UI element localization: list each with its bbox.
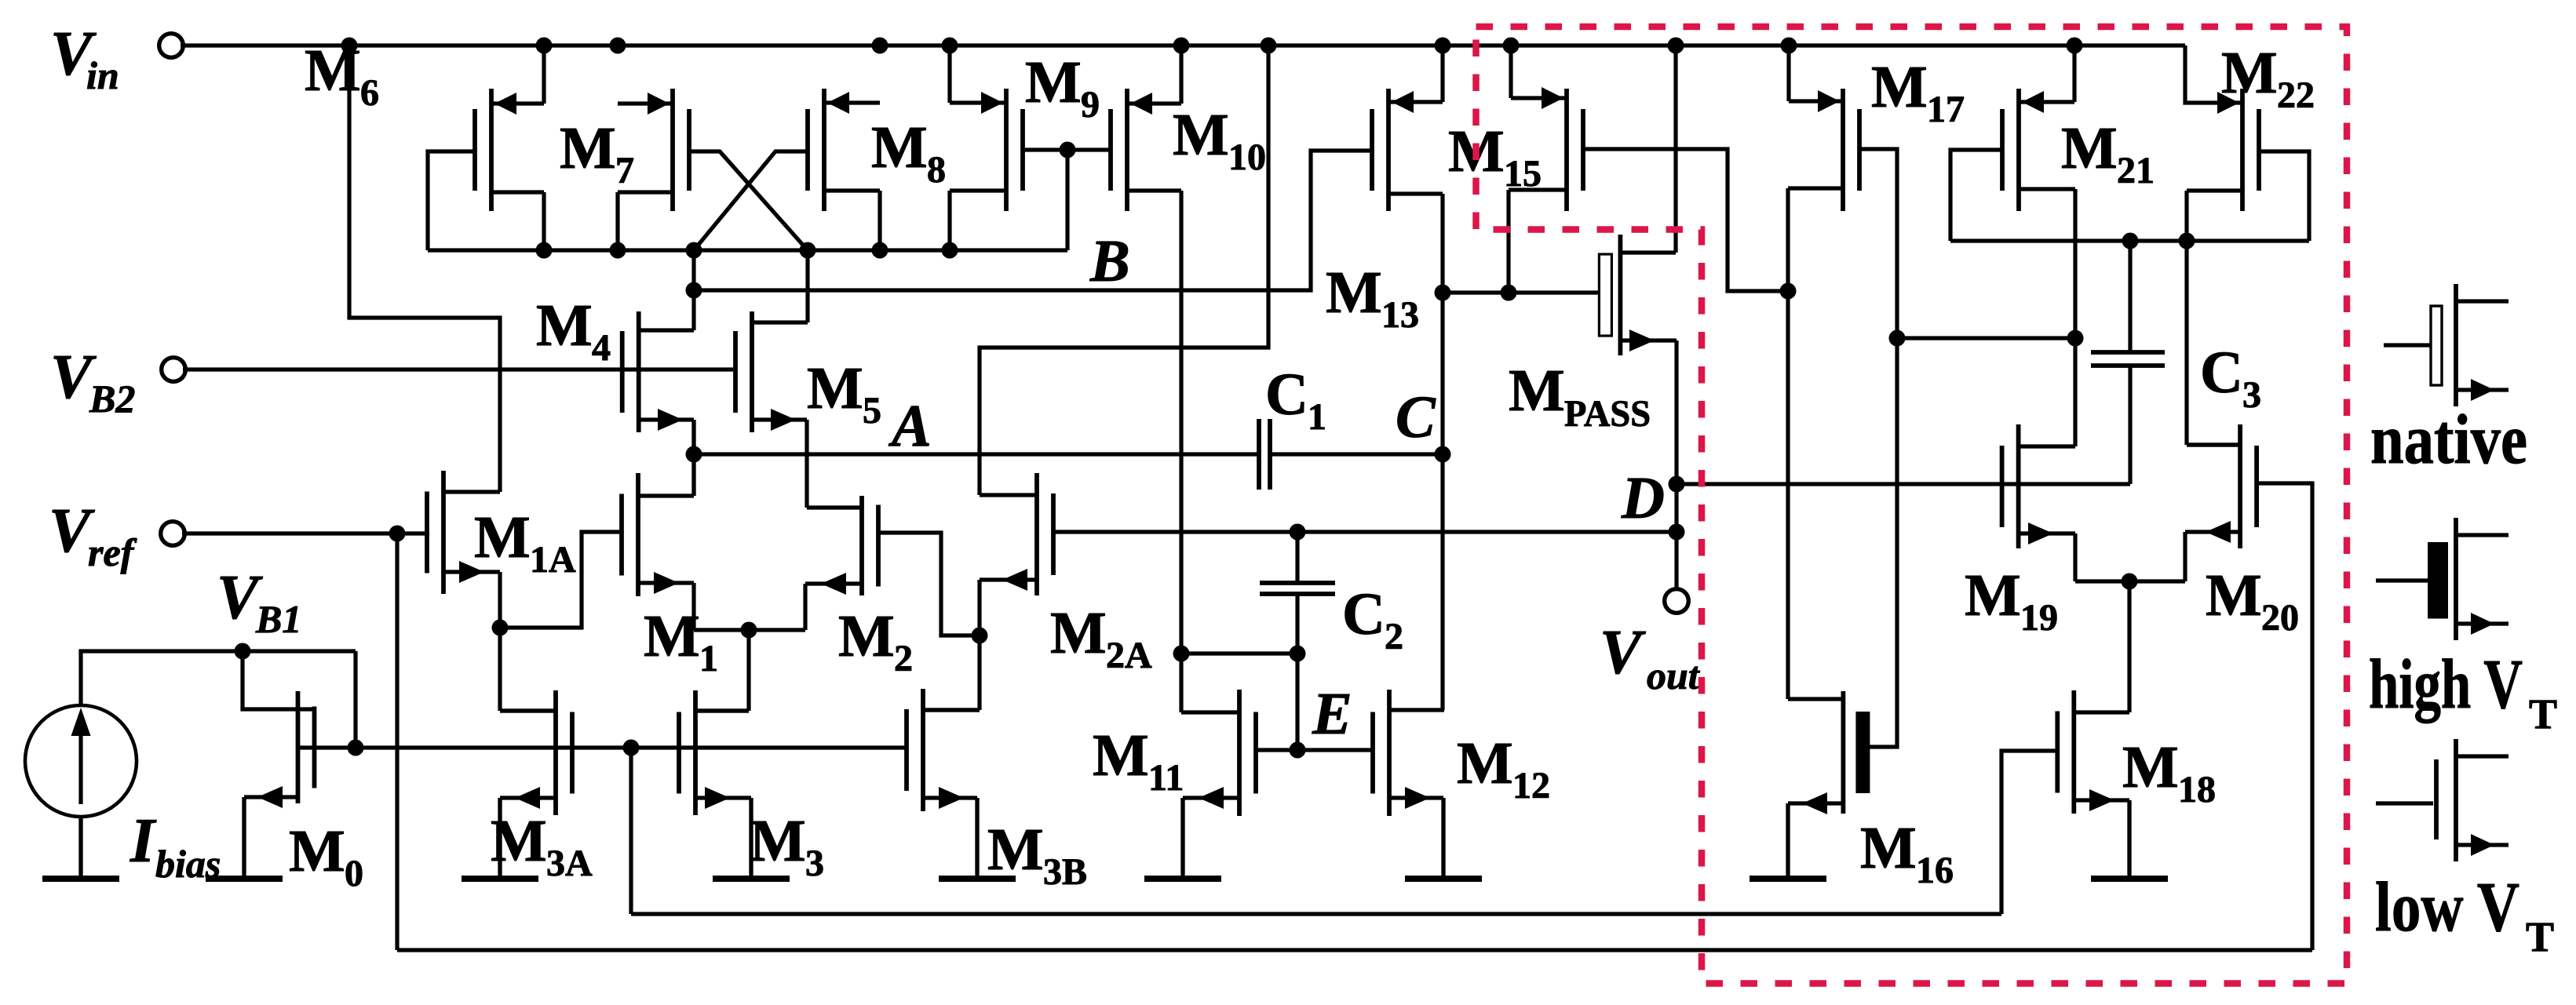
label MPASS: [1509, 358, 1651, 435]
transistor M11: [1183, 690, 1256, 873]
transistor M3: [679, 690, 751, 873]
svg-text:2: 2: [1385, 616, 1403, 657]
wire node D rail: [1677, 482, 2130, 486]
wire M15 gate: [1582, 149, 1788, 291]
svg-text:M: M: [289, 818, 345, 884]
junction dot VB1: [235, 643, 251, 660]
transistor M12: [1373, 690, 1444, 873]
svg-text:ref: ref: [88, 530, 137, 574]
junction dot node A: [686, 446, 702, 463]
node label D: [1621, 465, 1665, 531]
label C1: [1265, 362, 1326, 438]
svg-text:8: 8: [927, 149, 946, 191]
wire node C vertical: [1440, 194, 1444, 710]
svg-text:M: M: [2221, 40, 2278, 106]
junction dot C2 top: [1290, 524, 1306, 541]
junction dot M2A source node: [972, 628, 988, 644]
label Vout: [1600, 618, 1701, 697]
wire MPASS drain to Vin: [1673, 46, 1677, 253]
svg-text:M: M: [2061, 115, 2118, 181]
legend high-VT symbol: [2376, 518, 2508, 640]
svg-text:9: 9: [1081, 84, 1100, 126]
label M20: [2206, 563, 2299, 639]
svg-text:M: M: [491, 808, 547, 874]
node label B: [1089, 228, 1130, 294]
svg-text:M: M: [838, 603, 895, 669]
ground Ibias: [42, 817, 119, 879]
legend label low VT: [2375, 868, 2554, 960]
label Ibias: [130, 807, 221, 886]
svg-text:C: C: [1396, 384, 1436, 450]
label Vref: [49, 497, 137, 574]
wire M7 gate diagonal: [688, 151, 808, 250]
label M4: [536, 293, 611, 369]
transistor M8: [808, 89, 880, 250]
red dashed box: [1476, 27, 2348, 984]
wire M10 drain to M11 drain: [1181, 191, 1239, 712]
junction dot node C: [1435, 446, 1451, 463]
svg-text:M: M: [1093, 723, 1149, 788]
transistor M20: [2185, 424, 2257, 581]
wire M9 diode loop: [1065, 150, 1069, 250]
label M3A: [491, 808, 593, 884]
wire M4 source to M1 drain: [691, 420, 695, 496]
junction dot M15 gate to M17 drain: [1780, 283, 1797, 300]
transistor M1: [622, 473, 694, 630]
svg-text:3: 3: [2242, 374, 2261, 416]
svg-text:M: M: [1173, 102, 1229, 168]
terminal VB2: [162, 358, 186, 382]
label M0: [289, 818, 363, 894]
svg-text:C: C: [2200, 340, 2243, 406]
svg-text:native: native: [2370, 401, 2527, 479]
junction dot Vref: [389, 526, 406, 542]
ground M18: [2091, 800, 2168, 879]
transistor M13: [1372, 46, 1443, 211]
capacitor C2: [1260, 532, 1335, 654]
transistor M18: [2057, 581, 2129, 873]
junction dot node D: [1669, 476, 1685, 493]
transistor M1A: [427, 471, 556, 711]
svg-text:3B: 3B: [1043, 851, 1087, 893]
junction dot tail: [741, 622, 757, 639]
ground M3B: [939, 798, 1016, 879]
wire node E rail: [1256, 748, 1373, 752]
legend label high VT: [2369, 646, 2557, 737]
wire M21 gate loop: [1950, 150, 2002, 241]
label M19: [1965, 563, 2058, 639]
transistor M2A: [980, 473, 1053, 595]
svg-text:B: B: [1089, 228, 1130, 294]
label M1: [644, 603, 718, 679]
svg-text:7: 7: [615, 150, 634, 191]
wire tail to M3 drain: [695, 630, 749, 711]
junction dot MPASS gate node: [1435, 285, 1451, 301]
wire VB1 to bus: [353, 651, 357, 748]
svg-text:M: M: [305, 38, 361, 104]
wire VB1 bottom rail: [631, 748, 2001, 914]
junction dot M21 drain vertical: [2067, 330, 2084, 347]
svg-text:out: out: [1647, 654, 1701, 697]
wire M9-M10 gate link: [1021, 147, 1111, 151]
transistor M5: [735, 250, 808, 508]
label VB2: [50, 343, 135, 421]
node label C: [1396, 384, 1436, 450]
label M7: [560, 115, 634, 191]
junction dot M1 gate tap: [492, 620, 509, 636]
ground M11: [1144, 798, 1221, 879]
terminal Vout: [1665, 589, 1689, 614]
svg-text:E: E: [1312, 681, 1352, 747]
svg-text:A: A: [888, 393, 932, 459]
transistor M9: [950, 46, 1023, 211]
svg-text:13: 13: [1381, 294, 1419, 336]
junction dots drain row: [2122, 233, 2195, 249]
junction dots on Vin rail: [341, 38, 2083, 54]
svg-text:M: M: [644, 603, 700, 669]
capacitor C3: [2091, 241, 2165, 484]
transistor M3B: [907, 689, 980, 873]
junction dot C2 bottom: [1290, 646, 1306, 662]
wire node B vertical: [691, 250, 695, 330]
svg-text:19: 19: [2020, 597, 2058, 639]
wire C2 to node E: [1295, 654, 1299, 750]
junction dot node B: [686, 282, 702, 299]
transistor M19: [2002, 424, 2075, 581]
wire M18 gate to VB1 rail: [2001, 751, 2059, 914]
svg-text:11: 11: [1148, 757, 1184, 799]
svg-text:B1: B1: [255, 597, 301, 641]
label M10: [1173, 102, 1266, 178]
transistor M17: [1788, 46, 1859, 211]
svg-text:C: C: [1342, 581, 1385, 647]
terminal Vref: [161, 522, 185, 546]
svg-text:20: 20: [2261, 597, 2299, 639]
wire VB2 to M4 M5 gates: [183, 367, 733, 371]
transistor M10: [1111, 46, 1181, 211]
junction dot node E: [1290, 742, 1306, 759]
transistor M2: [805, 496, 878, 630]
transistor M15: [1509, 46, 1583, 293]
svg-text:21: 21: [2117, 150, 2155, 191]
svg-text:M: M: [1965, 563, 2021, 628]
wire node-B bus: [428, 248, 1067, 252]
node label E: [1312, 681, 1352, 747]
ground M3: [713, 798, 790, 879]
label VB1: [217, 563, 301, 641]
legend native symbol: [2384, 284, 2508, 406]
wire MPASS source to Vout: [1674, 340, 1678, 591]
node label A: [888, 393, 932, 459]
svg-text:M: M: [474, 504, 531, 570]
transistor M6: [475, 46, 544, 250]
label M5: [807, 355, 881, 431]
label M12: [1457, 730, 1550, 807]
svg-text:18: 18: [2178, 769, 2216, 810]
svg-text:M: M: [1457, 730, 1513, 796]
wire M17 M16 gates: [1860, 149, 1897, 747]
svg-text:1: 1: [1308, 396, 1326, 438]
wire M9 drain to bus: [947, 191, 951, 250]
wire Vin to M1A drain: [349, 46, 500, 492]
wire M2A drain to Vin: [980, 46, 1268, 495]
svg-text:4: 4: [592, 327, 611, 369]
junction dots on B bus: [536, 242, 958, 259]
label M18: [2122, 734, 2216, 810]
junction dot M10-C2 branch: [1173, 646, 1190, 662]
label M9: [1025, 49, 1100, 126]
label M2: [838, 603, 913, 679]
svg-text:15: 15: [1504, 153, 1542, 195]
svg-text:B2: B2: [89, 377, 135, 421]
label C3: [2200, 340, 2261, 416]
wire M22 gate loop: [2257, 151, 2309, 241]
legend label native: [2370, 401, 2527, 479]
svg-text:M: M: [2206, 563, 2262, 628]
svg-text:V: V: [1600, 618, 1646, 687]
wire M6 gate loop: [428, 151, 476, 250]
wire Vref to bottom rail: [395, 533, 399, 950]
label M6: [305, 38, 379, 114]
svg-text:high V: high V: [2369, 646, 2523, 723]
wire M21 drain to M19: [2019, 189, 2075, 446]
label C2: [1342, 581, 1403, 657]
svg-text:M: M: [1871, 54, 1928, 120]
transistor M7: [618, 89, 689, 250]
wire gate row to M21 drain: [1897, 336, 2075, 340]
wire Vref bottom rail: [397, 948, 2312, 952]
svg-text:low V: low V: [2375, 868, 2519, 946]
svg-text:D: D: [1621, 465, 1665, 531]
transistor M3A: [500, 690, 572, 873]
wire node A rail: [694, 452, 1259, 456]
label M11: [1093, 723, 1184, 799]
wire diff tail: [694, 628, 805, 632]
ground M0: [206, 797, 283, 879]
label M13: [1326, 260, 1419, 336]
wire Vin top rail: [181, 43, 2185, 47]
svg-text:M: M: [750, 808, 806, 874]
ground M16: [1750, 803, 1826, 879]
transistor M4: [622, 311, 694, 496]
junction dot M9 gate: [1060, 142, 1076, 158]
terminal Vin: [159, 34, 184, 58]
wire M21 drain row: [1950, 239, 2309, 242]
junction dots gate bus: [348, 740, 640, 756]
wire VB1 to M0 gate: [243, 651, 314, 709]
wire M17 drain to M16: [1788, 188, 1843, 699]
svg-text:3A: 3A: [546, 843, 593, 884]
svg-text:1: 1: [699, 638, 718, 679]
wire M1 gate: [500, 532, 623, 628]
wire node B rail: [694, 151, 1372, 290]
svg-text:1A: 1A: [530, 539, 576, 581]
junction dot gate row: [1889, 330, 1906, 347]
svg-text:T: T: [2529, 690, 2557, 737]
wire M22 drain to M20 drain: [2187, 191, 2240, 445]
svg-text:M: M: [1860, 815, 1917, 881]
junction dot M15 drain node: [1501, 285, 1517, 301]
wire C2 bottom link: [1181, 651, 1297, 655]
transistor M21: [2002, 46, 2075, 211]
svg-text:M: M: [560, 115, 616, 181]
svg-text:M: M: [1509, 358, 1565, 424]
label M1A: [474, 504, 576, 581]
label M3: [750, 808, 824, 884]
svg-text:6: 6: [360, 72, 379, 114]
svg-text:22: 22: [2277, 75, 2315, 116]
svg-text:0: 0: [345, 853, 363, 894]
label M3B: [987, 817, 1087, 893]
current source Ibias: [25, 651, 356, 873]
svg-text:in: in: [86, 53, 119, 97]
svg-text:M: M: [1025, 49, 1082, 115]
wire M2 gate: [878, 533, 980, 635]
capacitor C1: [1259, 419, 1443, 490]
svg-text:M: M: [871, 115, 928, 180]
wire M8 gate diagonal: [694, 151, 807, 250]
wire Vref line: [182, 531, 426, 535]
ground M12: [1405, 798, 1482, 879]
label Vin: [50, 20, 119, 97]
svg-text:2: 2: [894, 638, 913, 679]
svg-text:M: M: [536, 293, 593, 359]
transistor MPASS: [1599, 235, 1677, 355]
svg-text:PASS: PASS: [1564, 393, 1651, 435]
svg-text:C: C: [1265, 362, 1308, 428]
wire M20 gate to Vref rail: [2257, 483, 2312, 950]
wire MPASS gate line: [1443, 290, 1600, 294]
svg-text:2A: 2A: [1106, 635, 1152, 676]
svg-text:M: M: [1050, 600, 1107, 666]
transistor M0: [244, 691, 315, 873]
svg-text:M: M: [1326, 260, 1382, 326]
svg-text:I: I: [130, 807, 157, 876]
svg-text:M: M: [807, 355, 863, 421]
wire M2A source to M3B: [923, 580, 980, 710]
junction dot D line: [1669, 524, 1685, 541]
label M16: [1860, 815, 1954, 891]
wire gate bus VB1: [298, 745, 906, 749]
junction dot source row: [2122, 574, 2138, 590]
wire source row M19 M20: [2075, 579, 2185, 583]
label M2A: [1050, 600, 1152, 676]
svg-text:17: 17: [1927, 89, 1965, 130]
transistor M16: [1788, 691, 1870, 873]
svg-text:T: T: [2526, 913, 2554, 960]
label M22: [2221, 40, 2315, 116]
svg-text:5: 5: [863, 390, 881, 431]
label M8: [871, 115, 946, 191]
ground M3A: [462, 798, 538, 879]
svg-text:12: 12: [1512, 765, 1550, 807]
label M15: [1448, 118, 1542, 195]
transistor M22: [2185, 46, 2259, 211]
label M17: [1871, 54, 1965, 130]
svg-text:16: 16: [1916, 850, 1954, 891]
svg-text:M: M: [2122, 734, 2179, 800]
svg-text:10: 10: [1228, 137, 1266, 178]
label M21: [2061, 115, 2155, 191]
legend low-VT symbol: [2376, 739, 2508, 861]
wire node D line: [1052, 530, 1676, 533]
svg-text:3: 3: [805, 843, 824, 884]
svg-text:M: M: [987, 817, 1044, 883]
